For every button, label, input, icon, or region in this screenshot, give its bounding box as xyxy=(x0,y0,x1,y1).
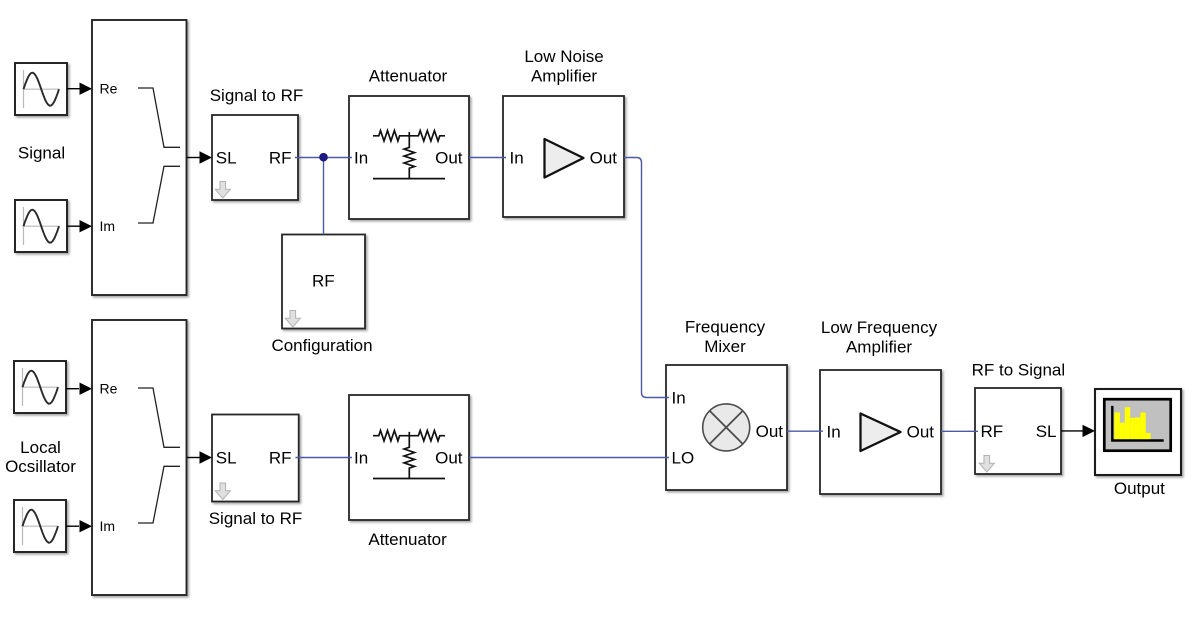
wire: sine2 to big block1 Im xyxy=(67,220,92,232)
svg-text:Configuration: Configuration xyxy=(271,336,372,355)
svg-text:Out: Out xyxy=(756,422,784,441)
look-under-mask badge on Signal to RF 1 xyxy=(215,182,230,199)
wire: big block2 out to Signal to RF 2 SL xyxy=(187,451,212,463)
Output scope block xyxy=(1095,389,1181,475)
look-under-mask badge on Configuration xyxy=(285,311,300,328)
svg-text:Out: Out xyxy=(435,449,463,468)
sine wave source block 1 (Signal Re) xyxy=(15,63,67,115)
real-imag funnel icon bottom bracket 2 xyxy=(138,466,180,523)
svg-text:RF: RF xyxy=(312,272,335,291)
sine wave source block 4 (Local Oscillator Im) xyxy=(14,500,66,552)
svg-text:Signal to RF: Signal to RF xyxy=(210,86,304,105)
scope axes xyxy=(1112,406,1163,441)
wire: sine3 to big block2 Re xyxy=(66,383,92,395)
Real-Imag to Complex block 1 (top) xyxy=(92,20,187,295)
attenuator 1 T-pad icon: series resistor left xyxy=(373,131,445,141)
Signal to RF subsystem block 1 (top) xyxy=(212,115,298,200)
svg-text:Ocsillator: Ocsillator xyxy=(5,457,76,476)
svg-text:Out: Out xyxy=(907,423,935,442)
svg-text:SL: SL xyxy=(1036,422,1057,441)
svg-text:Low Frequency: Low Frequency xyxy=(821,318,938,337)
scope yellow histogram bars xyxy=(1114,407,1150,439)
wire: Attenuator2 Out to Mixer LO (blue) xyxy=(469,457,669,459)
wire: RF2 out to Attenuator2 In (blue) xyxy=(296,457,353,459)
svg-text:Local: Local xyxy=(20,438,61,457)
svg-text:Low Noise: Low Noise xyxy=(524,47,603,66)
wire: Attenuator1 Out to LNA In (blue) xyxy=(469,157,506,159)
wire: big block1 out to Signal to RF 1 SL xyxy=(187,151,212,163)
attenuator 2 shunt resistor xyxy=(404,432,414,479)
svg-text:LO: LO xyxy=(672,449,695,468)
Real-Imag to Complex block 2 (bottom) xyxy=(92,320,187,595)
svg-text:Im: Im xyxy=(100,218,116,234)
svg-text:Signal to RF: Signal to RF xyxy=(209,509,303,528)
svg-text:RF: RF xyxy=(269,149,292,168)
svg-text:RF: RF xyxy=(269,449,292,468)
svg-text:In: In xyxy=(510,149,524,168)
attenuator 1 shunt resistor xyxy=(404,132,414,179)
attenuator 1 ground rail xyxy=(373,178,445,180)
LFA gain triangle xyxy=(861,414,901,452)
mixer circle-X symbol xyxy=(703,404,750,451)
label "Local Ocsillator" xyxy=(5,438,76,476)
wire: RF1 out to Attenuator1 In (blue) xyxy=(295,157,352,159)
Signal to RF subsystem block 2 (bottom) xyxy=(212,415,299,502)
svg-text:Amplifier: Amplifier xyxy=(846,338,912,357)
svg-text:Attenuator: Attenuator xyxy=(368,530,447,549)
svg-text:Amplifier: Amplifier xyxy=(531,67,597,86)
look-under-mask badge on RF to Signal xyxy=(979,456,994,473)
label "Frequency Mixer" xyxy=(685,318,766,357)
svg-text:SL: SL xyxy=(216,449,237,468)
sine icon axes 3 xyxy=(22,368,24,406)
svg-text:RF to Signal: RF to Signal xyxy=(972,360,1066,379)
svg-text:Out: Out xyxy=(435,149,463,168)
sine wave source block 2 (Signal Im) xyxy=(15,200,67,252)
svg-text:In: In xyxy=(827,423,841,442)
sine icon curve 4 xyxy=(23,510,59,543)
wire: LNA Out to Mixer In (blue, two bends) xyxy=(624,158,669,398)
Attenuator block 2 (bottom) xyxy=(349,395,469,520)
wire: Mixer Out to LFA In (blue) xyxy=(787,430,823,432)
RF to Signal subsystem block xyxy=(975,388,1061,474)
svg-text:Im: Im xyxy=(100,518,116,534)
sine icon axes 1 xyxy=(23,70,25,108)
svg-text:SL: SL xyxy=(216,149,237,168)
svg-text:Attenuator: Attenuator xyxy=(369,66,448,85)
sine icon curve 2 xyxy=(24,210,60,243)
real-imag funnel icon top bracket 1 xyxy=(138,88,180,147)
svg-text:Frequency: Frequency xyxy=(685,318,766,337)
label "Low Noise Amplifier" xyxy=(524,47,603,85)
sine wave source block 3 (Local Oscillator Re) xyxy=(14,361,66,413)
sine icon curve 1 xyxy=(24,73,60,106)
label "Low Frequency Amplifier" xyxy=(821,318,938,357)
svg-text:RF: RF xyxy=(981,422,1004,441)
look-under-mask badge on Signal to RF 2 xyxy=(215,483,230,500)
real-imag funnel icon top bracket 2 xyxy=(138,388,180,447)
svg-text:Re: Re xyxy=(100,380,118,396)
wire: LFA Out to RF to Signal RF (blue) xyxy=(941,430,978,432)
sine icon axes 4 xyxy=(22,507,24,545)
Configuration block xyxy=(282,235,365,329)
svg-text:Output: Output xyxy=(1114,479,1165,498)
LNA gain triangle xyxy=(545,139,584,178)
Attenuator block 1 (top) xyxy=(349,96,469,219)
attenuator 2 ground rail xyxy=(373,478,445,480)
svg-text:Re: Re xyxy=(100,80,118,96)
svg-text:In: In xyxy=(354,149,368,168)
sine icon axes 2 xyxy=(23,207,25,245)
Frequency Mixer block xyxy=(666,365,787,490)
wire: RF to Signal SL to Output scope (black arrow) xyxy=(1061,425,1095,437)
svg-text:Mixer: Mixer xyxy=(704,337,746,356)
svg-text:In: In xyxy=(672,389,686,408)
svg-text:Out: Out xyxy=(590,149,618,168)
junction dot xyxy=(319,153,328,162)
wire: branch down to Configuration xyxy=(323,158,325,235)
svg-text:Signal: Signal xyxy=(18,144,65,163)
svg-text:In: In xyxy=(354,449,368,468)
scope screen frame xyxy=(1104,399,1170,451)
real-imag funnel icon bottom bracket 1 xyxy=(138,166,180,223)
Low Frequency Amplifier block xyxy=(820,370,941,494)
attenuator 2 T-pad icon: series resistors xyxy=(373,431,445,441)
sine icon curve 3 xyxy=(23,371,59,404)
wire: sine1 to big block1 Re xyxy=(67,83,92,95)
wire: sine4 to big block2 Im xyxy=(66,520,92,532)
Low Noise Amplifier block xyxy=(503,96,624,217)
